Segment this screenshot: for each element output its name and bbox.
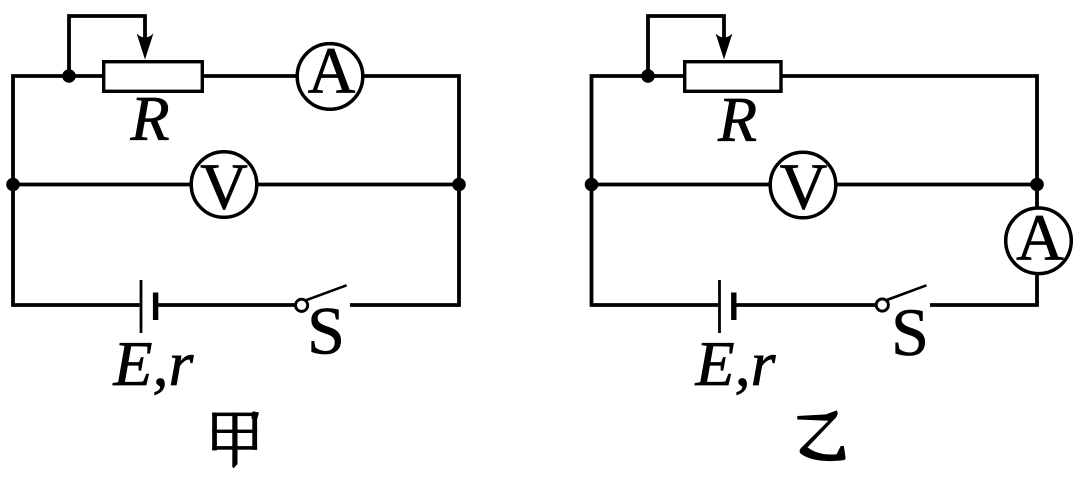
node: junction dot top (slider tap) — [62, 69, 76, 83]
label 甲 (drawn glyph) — [212, 411, 259, 468]
wire: rheostat slider loop — [69, 16, 145, 76]
wire: middle wire right of voltmeter — [257, 183, 459, 187]
wire: top wire from rheostat to right rail down to ammeter — [783, 76, 1038, 208]
ammeter A1 circle — [297, 44, 363, 110]
switch S2 lever — [886, 285, 927, 300]
wire: top wire between rheostat and ammeter — [203, 74, 297, 78]
svg-text:S: S — [307, 293, 345, 369]
node: junction dot middle-left — [585, 178, 599, 192]
wire: bottom wire battery to switch — [737, 303, 876, 307]
wire: middle wire right of voltmeter — [836, 183, 1037, 187]
wire: middle wire left of voltmeter — [592, 183, 771, 187]
node: junction dot top (slider tap) — [641, 69, 655, 83]
svg-text:E,r: E,r — [112, 328, 194, 399]
svg-text:R: R — [129, 83, 169, 154]
resistor R (rheostat box, right) — [685, 62, 781, 92]
wire: left rail + top-left segment + bottom-left segment — [13, 76, 140, 305]
ammeter A2 circle — [1006, 208, 1072, 274]
svg-text:V: V — [200, 151, 248, 224]
wire: rheostat slider loop — [648, 16, 724, 76]
voltmeter V1 circle — [191, 152, 257, 218]
switch S2 pivot circle — [876, 299, 888, 311]
node: junction dot middle-left — [6, 178, 20, 192]
svg-text:V: V — [780, 151, 828, 224]
switch S1 pivot circle — [296, 299, 308, 311]
battery E,r long plate — [140, 280, 143, 333]
svg-text:S: S — [891, 294, 929, 370]
voltmeter V2 circle — [770, 152, 836, 218]
node: junction dot middle-right — [452, 178, 466, 192]
wire: top-right segment + right rail + bottom-right segment — [350, 76, 459, 305]
battery E,r long plate (right) — [718, 280, 721, 333]
rheostat R1 slider arrowhead — [137, 34, 154, 60]
svg-text:A: A — [1016, 202, 1064, 275]
battery E,r short thick plate — [153, 293, 158, 321]
battery E,r short thick plate (right) — [731, 293, 736, 321]
svg-text:E,r: E,r — [695, 328, 777, 399]
node: junction dot middle-right — [1030, 178, 1044, 192]
svg-text:A: A — [308, 35, 356, 108]
svg-text:R: R — [717, 84, 757, 155]
switch S1 lever — [306, 285, 347, 300]
label 乙 (drawn glyph) — [797, 410, 845, 461]
resistor R (rheostat box) — [104, 62, 203, 92]
wire: left rail + top-left segment + bottom-left segment — [592, 76, 719, 305]
rheostat R2 slider arrowhead — [716, 34, 733, 60]
wire: right rail below ammeter + bottom-right segment — [930, 274, 1037, 305]
wire: bottom wire battery to switch — [158, 303, 295, 307]
wire: middle wire left of voltmeter — [13, 183, 191, 187]
